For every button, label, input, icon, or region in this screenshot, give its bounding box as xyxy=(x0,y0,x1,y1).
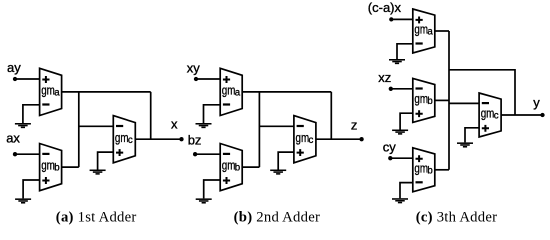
U7 gm_a (3rd adder) non-inverting input sign (top) xyxy=(416,16,423,23)
ground G5 (U6 + input) xyxy=(270,170,286,175)
node input node ax xyxy=(13,152,17,156)
op-amp (OTA) U5 gm_b (2nd adder) xyxy=(220,144,242,191)
wire U9 - input to ground xyxy=(400,183,413,199)
wire U7 output to summing node xyxy=(435,30,449,32)
U9 gm_b (3rd adder, bottom) inverting input sign (bottom) xyxy=(416,181,423,183)
wire summing node vertical (node z) xyxy=(258,92,260,167)
wire U10 output to node y xyxy=(501,114,542,116)
op-amp (OTA) U2 gm_b (1st adder) xyxy=(40,144,62,191)
node output node x xyxy=(179,137,183,141)
wire U5 + input to ground xyxy=(204,180,221,198)
svg-text:(c-a)x: (c-a)x xyxy=(368,0,402,15)
op-amp (OTA) U10 gm_c (3rd adder) xyxy=(479,93,501,137)
ground G2 (U3 + input) xyxy=(90,170,106,175)
node input node (c-a)x xyxy=(389,17,393,21)
svg-text:c: c xyxy=(494,111,499,122)
wire xz to U8 - input xyxy=(391,88,413,90)
wire top rail down to output xyxy=(150,92,152,139)
U10 gm_c (3rd adder) inverting input sign (top) xyxy=(482,102,489,104)
U6 gm_c (2nd adder) inverting input sign (top) xyxy=(297,125,304,127)
svg-text:(a) 1st Adder: (a) 1st Adder xyxy=(56,209,137,225)
wire U1 output top rail xyxy=(62,91,151,93)
wire top rail down to output z xyxy=(330,92,332,139)
ground G3 (U2 + input) xyxy=(15,198,31,203)
svg-text:(c) 3th Adder: (c) 3th Adder xyxy=(416,209,498,225)
wire summing node vertical (node y) xyxy=(448,31,450,170)
node input node ay xyxy=(13,77,17,81)
U4 gm_a (2nd adder) non-inverting input sign (top) xyxy=(223,76,230,83)
wire U3 output to node x xyxy=(135,138,181,140)
svg-text:ay: ay xyxy=(7,60,21,75)
wire U8 + input to ground xyxy=(400,113,413,129)
svg-text:gm: gm xyxy=(222,83,236,98)
wire U3 + input to ground xyxy=(98,152,114,169)
wire U7 - input to ground xyxy=(397,44,413,59)
ground G9 (U9 - input) xyxy=(392,198,408,203)
svg-text:ax: ax xyxy=(6,131,20,146)
op-amp (OTA) U7 gm_a (3rd adder) xyxy=(413,9,435,53)
svg-text:x: x xyxy=(171,116,178,131)
wire U1 - input to ground xyxy=(23,105,40,123)
svg-text:gm: gm xyxy=(414,91,428,106)
node input node xz xyxy=(389,87,393,91)
svg-text:bz: bz xyxy=(188,132,202,147)
wire U8 output to summing node xyxy=(435,99,449,101)
wire U9 output to summing node xyxy=(435,169,449,171)
svg-text:gm: gm xyxy=(41,158,55,173)
wire U2 output to summing node xyxy=(62,166,79,168)
U1 gm_a (1st adder) non-inverting input sign (top) xyxy=(42,76,49,83)
ground G4 (U4 - input) xyxy=(196,123,212,128)
U8 gm_b (3rd adder, middle) inverting input sign (top) xyxy=(416,87,423,89)
U3 gm_c (1st adder) inverting input sign (top) xyxy=(116,125,123,127)
svg-text:a: a xyxy=(54,88,60,99)
svg-text:y: y xyxy=(533,95,540,110)
wire top rail to output y xyxy=(449,70,515,115)
ground G7 (U7 - input) xyxy=(389,59,405,64)
ground G6 (U5 + input) xyxy=(196,198,212,203)
svg-text:a: a xyxy=(235,88,241,99)
wire summing node to U3 - input xyxy=(79,125,114,127)
node output node z xyxy=(359,137,363,141)
op-amp (OTA) U4 gm_a (2nd adder) xyxy=(220,68,242,115)
svg-text:b: b xyxy=(54,163,59,174)
wire ax to U2 - input xyxy=(15,153,40,155)
wire summing node to U10 - input xyxy=(449,102,479,104)
op-amp (OTA) U8 gm_b (3rd adder, middle) xyxy=(413,78,435,122)
wire U2 + input to ground xyxy=(23,180,39,198)
svg-text:gm: gm xyxy=(296,130,310,145)
svg-text:b: b xyxy=(427,165,432,176)
op-amp (OTA) U9 gm_b (3rd adder, bottom) xyxy=(413,148,435,192)
svg-text:gm: gm xyxy=(414,160,428,175)
node output node y xyxy=(540,113,544,117)
wire ay to U1 + input xyxy=(15,78,40,80)
wire summing node to U6 - input xyxy=(259,125,294,127)
U10 gm_c (3rd adder) non-inverting input sign (bottom) xyxy=(482,125,489,132)
op-amp (OTA) U3 gm_c (1st adder) xyxy=(113,116,135,163)
U8 gm_b (3rd adder, middle) non-inverting input sign (bottom) xyxy=(416,110,423,117)
svg-text:xy: xy xyxy=(187,60,201,75)
svg-text:c: c xyxy=(128,135,133,146)
node input node bz xyxy=(193,152,197,156)
wire U4 output top rail xyxy=(242,91,331,93)
ground G10 (U10 + input) xyxy=(457,142,473,147)
U6 gm_c (2nd adder) non-inverting input sign (bottom) xyxy=(297,149,304,156)
svg-text:gm: gm xyxy=(414,22,428,37)
U3 gm_c (1st adder) non-inverting input sign (bottom) xyxy=(116,149,123,156)
U1 gm_a (1st adder) inverting input sign (bottom) xyxy=(42,103,49,105)
wire U10 + input to ground xyxy=(465,128,479,143)
svg-text:b: b xyxy=(235,163,240,174)
U9 gm_b (3rd adder, bottom) non-inverting input sign (top) xyxy=(416,155,423,162)
U5 gm_b (2nd adder) non-inverting input sign (bottom) xyxy=(223,177,230,184)
U2 gm_b (1st adder) non-inverting input sign (bottom) xyxy=(42,177,49,184)
wire U6 output to node z xyxy=(316,138,362,140)
wire (c-a)x to U7 + input xyxy=(391,18,413,20)
svg-text:gm: gm xyxy=(41,83,55,98)
wire U5 output to summing node xyxy=(242,166,259,168)
svg-text:b: b xyxy=(427,96,432,107)
U7 gm_a (3rd adder) inverting input sign (bottom) xyxy=(416,42,423,44)
svg-text:gm: gm xyxy=(115,130,129,145)
U4 gm_a (2nd adder) inverting input sign (bottom) xyxy=(223,103,230,105)
wire U4 - input to ground xyxy=(204,105,221,123)
U5 gm_b (2nd adder) inverting input sign (top) xyxy=(223,153,230,155)
svg-text:xz: xz xyxy=(378,70,391,85)
svg-text:c: c xyxy=(309,135,314,146)
svg-text:cy: cy xyxy=(383,139,397,154)
svg-text:gm: gm xyxy=(222,158,236,173)
wire bz to U5 - input xyxy=(195,153,220,155)
svg-text:(b) 2nd Adder: (b) 2nd Adder xyxy=(234,209,320,225)
U2 gm_b (1st adder) inverting input sign (top) xyxy=(42,153,49,155)
node input node cy xyxy=(388,156,392,160)
wire summing node vertical (node x) xyxy=(78,92,80,167)
wire cy to U9 + input xyxy=(390,157,413,159)
wire U6 + input to ground xyxy=(278,152,294,169)
op-amp (OTA) U1 gm_a (1st adder) xyxy=(40,68,62,115)
wire xy to U4 + input xyxy=(196,78,220,80)
svg-text:z: z xyxy=(351,118,358,133)
svg-text:a: a xyxy=(427,27,433,38)
node input node xy xyxy=(194,77,198,81)
op-amp (OTA) U6 gm_c (2nd adder) xyxy=(294,116,316,163)
svg-text:gm: gm xyxy=(481,106,495,121)
ground G8 (U8 + input) xyxy=(392,130,408,135)
ground G1 (U1 - input) xyxy=(15,123,31,128)
